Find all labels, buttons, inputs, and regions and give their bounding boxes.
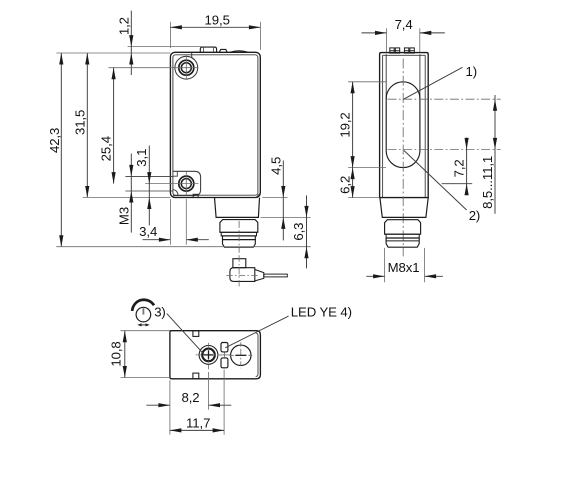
ext verticals for 3,4	[169, 199, 171, 244]
emitter axis line	[388, 98, 501, 100]
dim 4,5	[282, 161, 284, 241]
svg-text:M8x1: M8x1	[388, 260, 420, 275]
leader 1)	[404, 67, 463, 99]
dim 6,2	[352, 168, 354, 198]
front body bottom-right chamfer	[256, 193, 260, 197]
M8 tip (side)	[386, 238, 419, 247]
bottom mounting hole boss	[173, 171, 201, 195]
M8 centerline (front)	[238, 221, 240, 253]
cable connector taper	[255, 270, 264, 281]
dim 7,2	[466, 138, 468, 195]
svg-text:6,2: 6,2	[338, 176, 353, 194]
dim 31,5	[86, 53, 88, 198]
ext line body top left	[56, 52, 170, 54]
svg-text:1): 1)	[466, 64, 478, 79]
ext body bottom left	[83, 197, 171, 199]
receiver window circle	[231, 345, 251, 365]
dim M3	[130, 154, 132, 233]
side neck	[380, 198, 428, 218]
potentiometer ring	[202, 349, 215, 362]
top bump 2 (small)	[219, 49, 227, 52]
top bump 1 (connector detail)	[200, 47, 216, 52]
ext side body bottom left	[348, 197, 380, 199]
ext neck bottom right	[260, 216, 310, 218]
adjuster icon arc	[132, 300, 154, 311]
svg-text:7,2: 7,2	[452, 159, 467, 177]
adjuster icon slot	[142, 308, 144, 314]
leader 2)	[404, 151, 467, 211]
svg-text:1,2: 1,2	[117, 17, 132, 35]
bottom view inner right contour	[256, 333, 258, 377]
receiver circle crosshair	[229, 354, 252, 356]
svg-text:10,8: 10,8	[109, 341, 124, 366]
short ext line 7,2 bottom	[442, 183, 473, 185]
M8 flange (side)	[385, 220, 421, 235]
side vertical centerline	[402, 59, 404, 257]
optical window (stadium)	[386, 82, 420, 168]
svg-text:4,5: 4,5	[269, 157, 284, 175]
svg-text:19,5: 19,5	[205, 13, 230, 28]
svg-text:31,5: 31,5	[73, 110, 88, 135]
ext lines 7,4	[386, 28, 388, 52]
M8 groove (front)	[223, 236, 256, 240]
ext lines hole bottom area	[125, 175, 172, 177]
ext lines 10,8	[121, 330, 170, 332]
cable connector body	[230, 268, 255, 282]
svg-text:25,4: 25,4	[98, 136, 113, 161]
notch square bottom edge	[193, 373, 199, 379]
centerline between squares	[219, 354, 229, 356]
dim 19,5	[170, 26, 260, 28]
svg-text:6,3: 6,3	[291, 223, 306, 241]
dim 19,2	[352, 82, 354, 168]
cable connector centerlines	[238, 255, 240, 288]
long bottom ext line	[56, 246, 310, 248]
side top bumps	[390, 48, 394, 53]
bottom view body outline	[170, 331, 261, 379]
dim 1,2	[130, 11, 132, 75]
svg-text:3,4: 3,4	[139, 224, 157, 239]
dim 11,7	[170, 429, 224, 431]
svg-text:42,3: 42,3	[47, 128, 62, 153]
ext body bottom right	[262, 197, 287, 199]
potentiometer outer circle	[199, 346, 218, 365]
svg-text:3,1: 3,1	[134, 149, 149, 167]
bottom mounting hole M3	[179, 176, 194, 191]
M8 connector flange (front)	[220, 220, 258, 233]
connector neck (front)	[215, 198, 260, 218]
svg-text:7,4: 7,4	[395, 17, 413, 32]
extension lines front top	[169, 22, 171, 48]
M8 tip (front)	[223, 240, 256, 248]
ext top hole center left	[108, 67, 175, 69]
svg-text:2): 2)	[469, 208, 481, 223]
dim 3,4	[143, 239, 171, 241]
dim 7,4	[362, 32, 387, 34]
svg-text:LED YE 4): LED YE 4)	[291, 305, 352, 320]
front view body inner contour	[173, 55, 258, 195]
receiver axis line	[388, 148, 501, 150]
adjuster icon circle	[136, 307, 151, 322]
potentiometer crosshair	[196, 354, 222, 356]
cable connector pin	[264, 274, 288, 277]
svg-text:3): 3)	[154, 305, 166, 320]
LED square 2	[221, 358, 228, 368]
M8 band (front)	[221, 232, 256, 236]
dim 8,2	[146, 404, 170, 406]
top mounting hole boss	[175, 56, 198, 79]
dim 8,5...11,1	[494, 95, 496, 214]
side body inner lines	[382, 55, 384, 197]
top hole crosshair	[174, 67, 198, 69]
top bump 3 (flat lens)	[230, 51, 248, 52]
M8 band (side)	[386, 234, 419, 238]
svg-text:11,7: 11,7	[186, 415, 210, 430]
bottom edge notch	[193, 194, 198, 197]
leader LED	[225, 316, 288, 348]
ext window top/bottom left	[348, 81, 386, 83]
ext lines M8x1	[384, 248, 386, 282]
top mounting hole M3	[179, 60, 194, 75]
dim 25,4	[113, 68, 115, 184]
ext line bump top (1,2)	[128, 46, 202, 48]
svg-text:8,2: 8,2	[181, 390, 199, 405]
dim 42,3	[60, 53, 62, 247]
svg-text:19,2: 19,2	[338, 112, 353, 137]
adjuster icon double arrow	[140, 324, 148, 326]
cable connector symbol: square	[233, 259, 246, 268]
front view sensor body outline	[170, 52, 260, 197]
dim 6,3	[306, 195, 308, 268]
ext verticals below bottom view	[169, 380, 171, 435]
svg-text:M3: M3	[117, 207, 132, 225]
dim 10,8	[124, 331, 126, 378]
dim 3,1	[148, 146, 150, 226]
dim M8x1	[366, 275, 384, 277]
leader 3)	[167, 314, 205, 356]
side face edge lines	[385, 54, 387, 99]
bottom hole crosshair	[174, 183, 198, 185]
LED square 1	[221, 343, 228, 352]
side view body outline	[380, 53, 429, 198]
svg-text:8,5...11,1: 8,5...11,1	[480, 156, 495, 209]
notch square top edge	[193, 331, 199, 337]
